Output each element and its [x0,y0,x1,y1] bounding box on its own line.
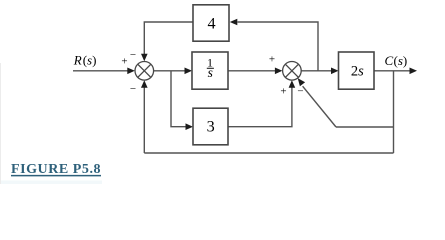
arrowhead into sum2 diagonal [298,78,305,86]
svg-text:R: R [73,53,82,68]
wire inner feedback horizontal [336,126,394,128]
svg-text:+: + [280,86,286,98]
wire 2s output to C(s) [374,70,410,72]
arrowhead into sum1 from top [141,54,148,62]
wire sum1 bottom input [143,88,145,154]
block 1/s [192,52,228,89]
wire sum2 output to 2s [301,70,331,72]
pale artifact under caption [0,181,102,185]
block 3 [193,108,228,145]
svg-text:s: s [208,65,213,80]
svg-text:(s): (s) [394,53,408,68]
wire outer feedback bottom [144,152,393,154]
wire output tap down [393,71,395,153]
wire block4 output to sum1 top [144,22,193,55]
arrowhead into sum2 from bottom [289,80,296,88]
svg-text:+: + [121,56,127,68]
wire input R(s) [73,70,128,72]
arrowhead into block 1/s [185,68,193,75]
wire inner feedback diagonal to sum2 [303,86,336,127]
left edge artifact [0,63,2,184]
svg-text:4: 4 [208,14,216,32]
svg-text:−: − [297,86,303,98]
wire tap to block3 input [171,71,186,127]
arrowhead into block 3 [186,123,194,130]
svg-text:C: C [385,53,394,68]
arrowhead into block 2s [331,68,339,75]
arrowhead into block 4 [230,19,238,26]
wire 1/s output to sum2 [228,70,276,72]
wire sum1 output to 1/s [154,70,185,72]
arrowhead into sum1 from bottom [141,80,148,88]
arrowhead into sum1 from left [127,68,135,75]
svg-text:+: + [269,53,275,65]
svg-text:(s): (s) [83,53,97,68]
summing junction sum1 [135,62,154,81]
svg-text:2s: 2s [351,63,364,79]
summing junction sum2 [283,62,302,81]
wire block3 output to sum2 bottom [228,88,292,127]
arrowhead output C(s) [410,68,418,75]
block 4 [193,5,229,41]
svg-text:−: − [130,49,136,61]
svg-text:−: − [130,83,136,95]
wire feedback tap to block4 input [238,22,319,71]
svg-text:3: 3 [207,118,215,136]
block 2s [339,52,375,89]
svg-text:FIGURE P5.8: FIGURE P5.8 [11,162,101,177]
arrowhead into sum2 from left [275,68,283,75]
